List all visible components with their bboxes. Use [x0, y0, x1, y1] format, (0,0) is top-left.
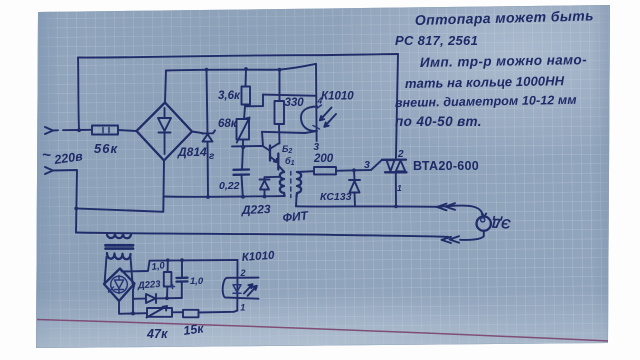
svg-text:56к: 56к [94, 141, 118, 156]
svg-text:1,0: 1,0 [190, 276, 204, 287]
svg-text:2: 2 [397, 149, 404, 160]
svg-text:ФИТ: ФИТ [282, 208, 310, 225]
svg-text:330: 330 [285, 97, 305, 109]
svg-text:ВТА20-600: ВТА20-600 [413, 159, 479, 173]
svg-text:по 40-50 вт.: по 40-50 вт. [395, 114, 482, 129]
svg-text:2: 2 [240, 268, 246, 278]
svg-text:Д223: Д223 [136, 279, 161, 292]
svg-text:тать на кольце 1000НН: тать на кольце 1000НН [405, 73, 565, 91]
svg-text:К1010: К1010 [241, 250, 275, 264]
svg-text:КС133: КС133 [320, 191, 352, 203]
svg-text:РС 817, 2561: РС 817, 2561 [395, 33, 478, 48]
svg-text:Д223: Д223 [241, 202, 271, 217]
svg-text:К1010: К1010 [321, 91, 354, 103]
svg-text:1: 1 [240, 303, 245, 313]
svg-text:15к: 15к [182, 321, 205, 338]
svg-text:0,22: 0,22 [219, 180, 240, 192]
svg-text:3,6к: 3,6к [218, 90, 241, 102]
svg-text:47к: 47к [146, 327, 168, 341]
svg-text:68к: 68к [218, 118, 238, 130]
svg-text:3: 3 [314, 142, 320, 153]
svg-text:200: 200 [313, 153, 334, 165]
svg-text:Д814: Д814 [177, 145, 207, 159]
svg-text:3: 3 [364, 159, 370, 171]
svg-text:1,0: 1,0 [151, 260, 166, 273]
svg-text:1: 1 [397, 183, 402, 193]
svg-text:Имп. тр-р можно намо-: Имп. тр-р можно намо- [420, 52, 587, 70]
svg-text:г: г [209, 151, 215, 162]
svg-text:~: ~ [42, 147, 51, 164]
svg-text:ЭД: ЭД [491, 215, 511, 231]
